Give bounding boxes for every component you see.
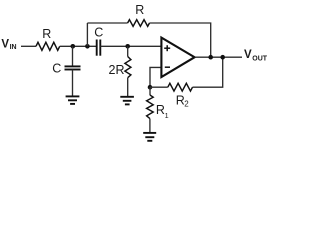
svg-text:1: 1: [165, 111, 169, 120]
wire VIN to R: [21, 45, 36, 47]
wire inverting input: [150, 67, 161, 87]
wire feedback rail left segment: [87, 22, 127, 24]
wire node D to R1: [149, 87, 151, 95]
node B junction dot: [85, 44, 90, 49]
svg-text:2: 2: [184, 100, 189, 109]
svg-text:R: R: [42, 27, 51, 41]
svg-text:IN: IN: [10, 44, 17, 51]
op-amp plus sign: [164, 45, 170, 51]
svg-text:V: V: [1, 38, 9, 50]
op-amp minus sign: [165, 66, 170, 68]
resistor R (input series): [36, 42, 60, 50]
svg-text:C: C: [52, 62, 61, 76]
node F junction dot: [220, 55, 225, 60]
svg-text:R: R: [135, 3, 144, 17]
node VOUT label: [244, 49, 268, 63]
wire node B up to feedback rail: [86, 23, 88, 46]
resistor R1: [147, 95, 154, 119]
wire op-amp output: [195, 56, 242, 58]
ground (below 2R): [120, 97, 134, 105]
capacitor C (series): [97, 40, 101, 56]
svg-text:OUT: OUT: [252, 56, 267, 63]
wire node D to R2: [150, 86, 168, 88]
ground (below shunt C): [66, 96, 80, 104]
node D junction dot: [148, 85, 153, 90]
resistor R (feedback): [128, 20, 150, 27]
node A junction dot: [71, 44, 76, 49]
svg-text:2R: 2R: [109, 63, 125, 77]
wire R1 to ground: [149, 119, 151, 133]
capacitor C (shunt): [65, 66, 81, 69]
wire node A down to shunt capacitor: [72, 46, 74, 66]
wire node C down to 2R: [127, 46, 129, 56]
node C junction dot: [125, 44, 130, 49]
wire R2 up to output node: [193, 57, 223, 87]
node VIN label: [1, 38, 16, 51]
svg-text:C: C: [94, 25, 103, 39]
wire shunt capacitor to ground: [72, 70, 74, 96]
resistor R2: [168, 83, 193, 91]
label R1: [156, 103, 169, 120]
svg-text:V: V: [244, 49, 252, 61]
svg-text:R: R: [156, 103, 165, 117]
node E junction dot: [208, 55, 213, 60]
resistor 2R (shunt): [125, 57, 131, 78]
ground (below R1): [143, 133, 156, 141]
wire series capacitor to op-amp noninverting input: [100, 45, 161, 47]
op-amp U1: [161, 38, 194, 77]
wire R to series capacitor: [60, 45, 96, 47]
label R2: [176, 93, 189, 108]
wire 2R to ground: [127, 78, 129, 97]
wire feedback rail right segment down to output: [150, 23, 211, 57]
